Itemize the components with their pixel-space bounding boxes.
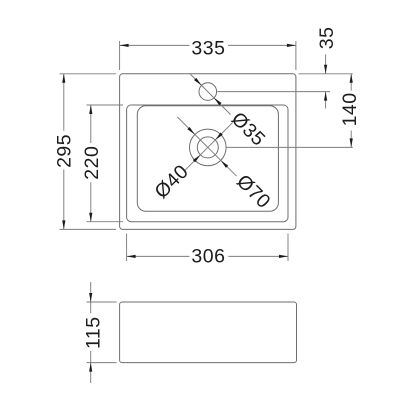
leader and label D35 (faucet hole): [190, 74, 269, 151]
rim opening rounded rect: [127, 105, 288, 222]
dimension 306 (rim opening width): [127, 234, 288, 268]
svg-text:Ø40: Ø40: [150, 160, 193, 203]
outer rect (sink top view): [120, 74, 296, 230]
side view rect: [120, 302, 297, 363]
dimension 35 (faucet offset from edge): [217, 27, 353, 109]
dimension 295 (overall depth): [53, 74, 116, 230]
faucet hole circle: [199, 83, 217, 101]
svg-text:Ø35: Ø35: [227, 108, 270, 151]
drain outer circle (D70): [190, 129, 227, 166]
basin floor rounded rect: [137, 106, 278, 211]
svg-text:115: 115: [82, 316, 104, 349]
svg-text:335: 335: [191, 38, 225, 60]
svg-text:306: 306: [191, 246, 225, 268]
svg-text:220: 220: [81, 146, 103, 180]
leader and label D70 (drain outer): [177, 117, 274, 213]
dimension 220 (rim opening depth): [81, 105, 123, 222]
dimension 335 (overall width): [120, 38, 296, 70]
svg-text:295: 295: [53, 134, 75, 168]
svg-text:Ø70: Ø70: [232, 170, 275, 213]
drain inner circle (D40): [197, 137, 218, 158]
leader and label D40 (drain inner): [150, 123, 232, 203]
svg-text:140: 140: [339, 92, 361, 126]
dimension 140 (drain offset from edge): [227, 74, 362, 148]
dimension 115 (height, side view): [82, 282, 116, 383]
svg-text:35: 35: [316, 27, 338, 50]
